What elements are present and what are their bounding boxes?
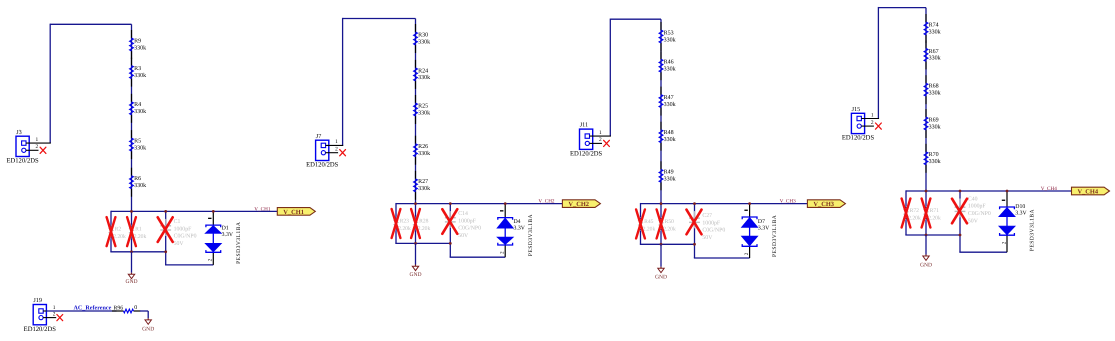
resistor R1 2.20k (DNP) xyxy=(130,225,147,240)
ground GND V_CH2 xyxy=(409,265,421,279)
svg-text:V_CH3: V_CH3 xyxy=(780,199,797,205)
capacitor C27 1000pF (DNP) xyxy=(689,211,725,241)
svg-text:C40: C40 xyxy=(968,196,978,202)
svg-text:ED120/2DS: ED120/2DS xyxy=(24,326,57,333)
wire capacitor branch C27 xyxy=(694,204,696,258)
junction V_CH3 chain-bus xyxy=(660,202,663,205)
wire capacitor branch C40 xyxy=(959,191,961,252)
svg-text:2.20k: 2.20k xyxy=(113,234,126,240)
svg-text:R45: R45 xyxy=(644,219,654,225)
svg-text:C0G/NP0: C0G/NP0 xyxy=(174,234,197,240)
svg-text:ED120/2DS: ED120/2DS xyxy=(570,151,603,158)
svg-text:3.3V: 3.3V xyxy=(514,226,526,232)
DNP cross on R23 xyxy=(392,209,401,238)
svg-text:ED120/2DS: ED120/2DS xyxy=(842,135,875,142)
resistor R50 2.20k (DNP) xyxy=(659,217,676,232)
wire resistor chain V_CH3 xyxy=(660,19,662,203)
svg-text:50V: 50V xyxy=(702,235,713,241)
junction V_CH1 gnd-line xyxy=(130,250,133,253)
junction V_CH1 cap-line xyxy=(164,250,167,253)
svg-text:330k: 330k xyxy=(929,90,941,97)
svg-text:2: 2 xyxy=(599,137,602,143)
svg-text:R47: R47 xyxy=(664,95,674,101)
resistor R48 330k xyxy=(659,130,676,143)
svg-text:R30: R30 xyxy=(418,32,428,38)
svg-text:2.20k: 2.20k xyxy=(134,234,147,240)
svg-text:R5: R5 xyxy=(134,139,141,145)
wire capacitor branch C14 xyxy=(449,204,451,258)
resistor R72 2.20k (DNP) xyxy=(904,206,921,221)
wire bottom line R2-R1-C1 xyxy=(110,251,165,253)
resistor R70 330k xyxy=(924,152,941,165)
junction V_CH4 diode-bus xyxy=(1006,190,1009,193)
no-connect X on J7 pin 2 xyxy=(340,150,346,156)
wire AC_Reference net xyxy=(46,311,148,318)
TVS diode D10 PESD3V3L1BA 3.3V xyxy=(999,191,1036,252)
svg-text:1000pF: 1000pF xyxy=(174,226,192,232)
svg-text:R6: R6 xyxy=(134,176,141,182)
capacitor C40 1000pF (DNP) xyxy=(955,196,991,224)
svg-text:R70: R70 xyxy=(929,152,939,158)
junction V_CH1 cap-bus xyxy=(164,210,167,213)
wire top horizontal V_CH4 xyxy=(878,7,926,9)
svg-text:J7: J7 xyxy=(316,133,322,140)
wire output bus V_CH3 xyxy=(641,203,808,205)
svg-text:1000pF: 1000pF xyxy=(968,204,986,210)
DNP cross on R2 xyxy=(107,217,116,246)
junction V_CH4 gnd-line xyxy=(925,234,928,237)
svg-text:AC_Reference: AC_Reference xyxy=(74,305,112,312)
svg-text:1: 1 xyxy=(599,130,602,136)
DNP cross on R50 xyxy=(657,209,666,238)
resistor R4 330k xyxy=(130,102,147,115)
svg-text:1: 1 xyxy=(53,305,56,311)
junction V_CH2 gnd-line xyxy=(414,242,417,245)
svg-text:1: 1 xyxy=(871,112,874,118)
svg-text:R23: R23 xyxy=(400,219,410,225)
svg-text:0: 0 xyxy=(134,305,137,311)
junction V_CH2 cap-bus xyxy=(449,202,452,205)
wire bottom line R45-R50-C27 xyxy=(640,243,695,245)
svg-text:R74: R74 xyxy=(929,22,939,28)
connector J7 ED120/2DS xyxy=(306,133,343,169)
resistor R2 2.20k (DNP) xyxy=(109,225,126,240)
DNP cross on R1 xyxy=(127,217,136,246)
svg-text:1: 1 xyxy=(335,139,338,145)
junction V_CH1 diode-bus xyxy=(212,210,215,213)
junction V_CH3 gnd-line xyxy=(660,243,663,246)
wire left branch R23 xyxy=(395,203,397,243)
wire to ground V_CH4 xyxy=(925,235,927,255)
svg-text:R4: R4 xyxy=(134,102,141,108)
resistor R26 330k xyxy=(414,144,431,157)
svg-text:2: 2 xyxy=(335,147,338,153)
resistor R46 330k xyxy=(659,59,676,72)
wire to ground V_CH1 xyxy=(131,252,133,273)
resistor R5 330k xyxy=(130,138,147,151)
svg-text:2: 2 xyxy=(36,144,39,150)
svg-text:330k: 330k xyxy=(929,28,941,35)
svg-text:C1: C1 xyxy=(174,219,181,225)
resistor R23 2.20k (DNP) xyxy=(394,217,411,232)
wire top horizontal V_CH2 xyxy=(343,18,416,20)
svg-text:PESD3V3L1BA: PESD3V3L1BA xyxy=(528,214,534,256)
DNP cross on R45 xyxy=(636,209,645,238)
svg-text:50V: 50V xyxy=(968,218,979,224)
svg-text:2: 2 xyxy=(871,120,874,126)
svg-text:330k: 330k xyxy=(664,101,676,108)
svg-text:J19: J19 xyxy=(33,297,42,304)
resistor R96 0 xyxy=(114,305,138,313)
svg-text:3.3V: 3.3V xyxy=(222,232,234,238)
svg-text:3.3V: 3.3V xyxy=(758,226,770,232)
svg-text:V_CH4: V_CH4 xyxy=(1041,186,1058,192)
no-connect X on J19 pin 2 xyxy=(57,315,63,321)
svg-text:R50: R50 xyxy=(665,219,675,225)
wire chain branch R28 xyxy=(415,204,417,244)
resistor R53 330k xyxy=(659,30,676,43)
svg-text:330k: 330k xyxy=(418,109,430,116)
svg-text:ED120/2DS: ED120/2DS xyxy=(6,158,39,165)
DNP cross on C40 xyxy=(952,199,967,224)
wire resistor chain V_CH2 xyxy=(415,19,417,204)
svg-text:J11: J11 xyxy=(580,122,588,129)
resistor R74 330k xyxy=(924,22,941,35)
wire output bus V_CH4 xyxy=(906,190,1072,192)
resistor R30 330k xyxy=(414,32,431,45)
svg-text:2.20k: 2.20k xyxy=(928,215,941,221)
junction V_CH3 cap-bus xyxy=(693,202,696,205)
svg-text:1: 1 xyxy=(36,137,39,143)
svg-text:GND: GND xyxy=(125,279,137,285)
svg-text:R3: R3 xyxy=(134,66,141,72)
junction V_CH4 chain-bus xyxy=(925,190,928,193)
svg-text:J3: J3 xyxy=(16,129,22,136)
svg-text:R53: R53 xyxy=(664,30,674,36)
svg-text:V_CH2: V_CH2 xyxy=(538,199,555,205)
svg-text:330k: 330k xyxy=(134,44,146,51)
svg-text:R25: R25 xyxy=(418,103,428,109)
DNP cross on R28 xyxy=(411,209,420,238)
svg-text:330k: 330k xyxy=(664,36,676,43)
wire output bus V_CH1 xyxy=(111,210,277,212)
svg-text:R46: R46 xyxy=(664,60,674,66)
junction V_CH1 chain-bus xyxy=(130,210,133,213)
power port flag V_CH1 xyxy=(277,208,315,216)
svg-text:R69: R69 xyxy=(929,117,939,123)
wire left branch R2 xyxy=(110,211,112,252)
svg-text:C0G/NP0: C0G/NP0 xyxy=(458,226,481,232)
power port flag V_CH3 xyxy=(807,200,845,208)
DNP cross on R71 xyxy=(922,199,931,228)
svg-text:V_CH2: V_CH2 xyxy=(568,201,589,208)
no-connect X on J3 pin 2 xyxy=(40,147,46,153)
junction V_CH3 cap-line xyxy=(693,243,696,246)
resistor R67 330k xyxy=(924,48,941,61)
wire resistor chain V_CH4 xyxy=(925,8,927,191)
svg-text:R48: R48 xyxy=(664,130,674,136)
svg-text:330k: 330k xyxy=(418,38,430,45)
wire left branch R72 xyxy=(905,190,907,235)
wire output bus V_CH2 xyxy=(396,203,562,205)
wire bottom line C27-D7 xyxy=(694,257,750,259)
wire bottom line C14-D4 xyxy=(450,256,506,258)
svg-text:2: 2 xyxy=(500,251,506,254)
svg-text:R72: R72 xyxy=(910,208,920,214)
DNP cross on C14 xyxy=(442,209,457,234)
junction V_CH4 cap-line xyxy=(959,234,962,237)
resistor R28 2.20k (DNP) xyxy=(414,217,431,232)
svg-text:R28: R28 xyxy=(419,219,429,225)
connector J11 ED120/2DS xyxy=(570,122,611,158)
ground GND V_CH4 xyxy=(920,255,932,269)
junction V_CH2 cap-line xyxy=(449,242,452,245)
TVS diode D1 PESD3V3L1BA 3.3V xyxy=(205,211,242,265)
DNP cross on R72 xyxy=(902,199,911,228)
svg-text:330k: 330k xyxy=(929,158,941,165)
resistor R49 330k xyxy=(659,169,676,182)
svg-text:330k: 330k xyxy=(929,123,941,130)
svg-text:330k: 330k xyxy=(929,55,941,62)
junction V_CH3 diode-bus xyxy=(748,202,751,205)
wire top horizontal V_CH1 xyxy=(50,23,131,25)
svg-text:R26: R26 xyxy=(418,144,428,150)
resistor R47 330k xyxy=(659,95,676,108)
wire chain branch R1 xyxy=(131,211,133,251)
wire to ground V_CH2 xyxy=(415,243,417,264)
svg-text:V_CH1: V_CH1 xyxy=(283,209,304,216)
junction V_CH4 cap-bus xyxy=(959,190,962,193)
svg-text:J15: J15 xyxy=(852,106,861,113)
svg-text:330k: 330k xyxy=(418,74,430,81)
resistor R24 330k xyxy=(414,68,431,81)
svg-text:R68: R68 xyxy=(929,84,939,90)
svg-text:R71: R71 xyxy=(930,208,940,214)
DNP cross on C1 xyxy=(158,217,173,242)
svg-text:C0G/NP0: C0G/NP0 xyxy=(968,211,991,217)
wire chain branch R50 xyxy=(660,204,662,245)
ground GND AC_Reference xyxy=(142,318,154,332)
svg-text:ED120/2DS: ED120/2DS xyxy=(306,162,339,169)
svg-text:C27: C27 xyxy=(702,213,712,219)
resistor R27 330k xyxy=(414,179,431,192)
resistor R9 330k xyxy=(130,38,147,51)
svg-text:3.3V: 3.3V xyxy=(1015,211,1027,217)
ground GND V_CH1 xyxy=(125,273,137,286)
svg-text:330k: 330k xyxy=(134,144,146,151)
capacitor C1 1000pF (DNP) xyxy=(160,219,196,247)
no-connect X on J15 pin 2 xyxy=(876,123,882,129)
svg-text:R49: R49 xyxy=(664,170,674,176)
wire left vertical to J15 pin 1 xyxy=(877,7,879,119)
resistor R45 2.20k (DNP) xyxy=(639,217,656,232)
connector J15 ED120/2DS xyxy=(842,106,879,142)
svg-text:R27: R27 xyxy=(418,179,428,185)
svg-text:V_CH4: V_CH4 xyxy=(1078,189,1099,196)
wire capacitor branch C1 xyxy=(165,211,167,265)
svg-text:2.20k: 2.20k xyxy=(663,226,676,232)
resistor R69 330k xyxy=(924,117,941,130)
svg-text:GND: GND xyxy=(142,327,154,333)
wire left vertical to J3 pin 1 xyxy=(49,24,51,143)
no-connect X on J11 pin 2 xyxy=(604,140,610,146)
svg-text:330k: 330k xyxy=(664,136,676,143)
wire to ground V_CH3 xyxy=(660,244,662,266)
svg-text:C14: C14 xyxy=(458,211,468,217)
svg-text:1000pF: 1000pF xyxy=(458,218,476,224)
svg-text:PESD3V3L1BA: PESD3V3L1BA xyxy=(236,222,242,264)
svg-text:50V: 50V xyxy=(458,233,469,239)
svg-text:R24: R24 xyxy=(418,68,428,74)
svg-text:D10: D10 xyxy=(1015,204,1025,210)
svg-text:GND: GND xyxy=(655,275,667,281)
svg-text:330k: 330k xyxy=(134,72,146,79)
wire bottom line C1-D1 xyxy=(165,264,213,266)
connector J3 ED120/2DS xyxy=(6,129,50,165)
svg-text:2.20k: 2.20k xyxy=(643,226,656,232)
svg-text:330k: 330k xyxy=(418,185,430,192)
resistor R71 2.20k (DNP) xyxy=(924,206,941,221)
wire left vertical to J7 pin 1 xyxy=(342,18,344,146)
svg-text:V_CH1: V_CH1 xyxy=(254,206,271,212)
wire resistor chain V_CH1 xyxy=(131,24,133,211)
junction V_CH2 diode-bus xyxy=(504,202,507,205)
svg-text:2.20k: 2.20k xyxy=(418,226,431,232)
junction V_CH2 chain-bus xyxy=(414,202,417,205)
wire left vertical to J11 pin 1 xyxy=(609,19,611,137)
connector J19 ED120/2DS xyxy=(24,297,57,333)
svg-text:330k: 330k xyxy=(664,66,676,73)
svg-text:GND: GND xyxy=(409,272,421,278)
wire top horizontal V_CH3 xyxy=(610,18,661,20)
svg-text:R9: R9 xyxy=(134,38,141,44)
svg-text:2: 2 xyxy=(53,311,56,317)
svg-text:330k: 330k xyxy=(134,108,146,115)
wire bottom line R72-R71-C40 xyxy=(905,234,960,236)
svg-text:D4: D4 xyxy=(514,219,521,225)
svg-text:R2: R2 xyxy=(115,227,122,233)
resistor R68 330k xyxy=(924,83,941,96)
svg-text:PESD3V3L1BA: PESD3V3L1BA xyxy=(1030,209,1036,251)
svg-text:GND: GND xyxy=(920,263,932,269)
svg-text:2.20k: 2.20k xyxy=(908,215,921,221)
wire chain branch R71 xyxy=(925,191,927,235)
svg-text:D7: D7 xyxy=(758,219,765,225)
capacitor C14 1000pF (DNP) xyxy=(445,211,481,239)
svg-text:C0G/NP0: C0G/NP0 xyxy=(702,228,725,234)
ground GND V_CH3 xyxy=(655,267,667,281)
svg-text:1000pF: 1000pF xyxy=(702,220,720,226)
svg-text:2: 2 xyxy=(208,258,214,261)
svg-text:330k: 330k xyxy=(418,150,430,157)
resistor R25 330k xyxy=(414,103,431,116)
TVS diode D4 PESD3V3L1BA 3.3V xyxy=(497,204,534,258)
power port flag V_CH4 xyxy=(1072,187,1110,195)
DNP cross on C27 xyxy=(687,210,702,235)
wire bottom line C40-D10 xyxy=(959,251,1007,253)
svg-text:PESD3V3L1BA: PESD3V3L1BA xyxy=(772,215,778,257)
TVS diode D7 PESD3V3L1BA 3.3V xyxy=(741,204,778,258)
resistor R3 330k xyxy=(130,66,147,79)
power port flag V_CH2 xyxy=(562,200,600,208)
svg-text:330k: 330k xyxy=(664,176,676,183)
svg-text:2: 2 xyxy=(1001,241,1007,244)
svg-text:D1: D1 xyxy=(222,225,229,231)
resistor R6 330k xyxy=(130,176,147,189)
svg-text:V_CH3: V_CH3 xyxy=(813,201,834,208)
svg-text:R1: R1 xyxy=(135,227,142,233)
wire left branch R45 xyxy=(640,203,642,244)
svg-text:R67: R67 xyxy=(929,49,939,55)
svg-text:2.20k: 2.20k xyxy=(398,226,411,232)
svg-text:R96: R96 xyxy=(114,305,124,311)
wire bottom line R23-R28-C14 xyxy=(395,242,450,244)
svg-text:2: 2 xyxy=(744,252,750,255)
svg-text:330k: 330k xyxy=(134,182,146,189)
svg-text:50V: 50V xyxy=(174,241,185,247)
